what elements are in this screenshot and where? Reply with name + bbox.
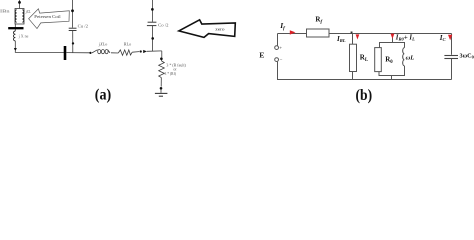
- busbar middle: [64, 46, 67, 60]
- wire source to top rail: [277, 34, 279, 46]
- node dot above ground: [160, 87, 163, 90]
- svg-text:jXL: jXL: [25, 9, 31, 14]
- current arrow IR0+IL: [391, 34, 395, 39]
- resistor RLo: [118, 50, 132, 55]
- wire top rail: [278, 33, 452, 35]
- resistor Rf box: [307, 29, 330, 37]
- transformer T1 box: [15, 9, 24, 25]
- resistor RL box: [350, 44, 357, 71]
- wire below Petersen coil: [14, 41, 16, 49]
- wire feeder 2 capacitor branch: [152, 0, 154, 22]
- wire R0-L bottom connector: [379, 66, 405, 76]
- wire below fault resistor: [160, 78, 162, 87]
- wire capacitor to rail: [72, 31, 74, 53]
- svg-text:jXLo: jXLo: [98, 42, 107, 47]
- wire right column down: [451, 34, 453, 55]
- wire middle rail: [66, 52, 90, 54]
- capacitor 3wC0: [444, 56, 458, 59]
- svg-text:Co /2: Co /2: [158, 23, 168, 28]
- wire top lead of transformer: [19, 0, 21, 9]
- wire after resistor: [132, 51, 139, 54]
- arrowhead down: [14, 48, 17, 51]
- svg-text:Petersen Coil: Petersen Coil: [34, 15, 60, 19]
- current arrow If: [290, 30, 296, 34]
- wire group to bottom rail: [391, 76, 393, 80]
- source E terminal top: [275, 46, 279, 50]
- wire neutral lead: [14, 24, 16, 31]
- callout zero arrow: [179, 20, 236, 38]
- node dot mid branch: [72, 42, 74, 44]
- svg-text:R0: R0: [385, 56, 393, 66]
- wire fault branch top: [161, 51, 163, 58]
- svg-text:RLo: RLo: [124, 41, 132, 46]
- wire capacitor 2 to rail: [152, 26, 154, 51]
- wire RL to bottom rail: [352, 72, 354, 80]
- node junction square: [351, 32, 353, 34]
- resistor 3Rf vertical: [159, 60, 165, 78]
- node junction dot: [89, 52, 91, 54]
- node dot: [151, 8, 154, 11]
- wire to fault corner: [147, 50, 162, 52]
- current arrow IRL: [356, 34, 360, 39]
- svg-text:or: or: [173, 68, 177, 72]
- wire to resistor: [111, 52, 118, 54]
- svg-text:zero: zero: [215, 26, 225, 31]
- capacitor Co/2: [147, 22, 157, 25]
- wire feeder capacitor branch: [72, 0, 74, 28]
- wire RL branch: [352, 34, 354, 45]
- svg-text:IBn: IBn: [0, 8, 11, 13]
- svg-text:IRL: IRL: [336, 35, 346, 43]
- svg-text:IR0+ IL: IR0+ IL: [395, 34, 415, 41]
- callout Petersen Coil: [29, 9, 70, 29]
- svg-text:(a): (a): [95, 87, 111, 104]
- current arrow IC: [448, 35, 452, 41]
- arrowhead right: [143, 50, 147, 53]
- svg-text:Rf: Rf: [315, 16, 322, 26]
- wire to ground: [160, 90, 162, 93]
- resistor R0 box: [375, 48, 382, 72]
- inductor jXLo: [92, 50, 110, 54]
- wire middle rail left: [15, 51, 64, 52]
- svg-text:j X ne: j X ne: [17, 35, 28, 39]
- node dot on capacitor branch: [71, 9, 74, 12]
- inductor Petersen coil: [13, 31, 15, 41]
- transformer T1 right winding: [22, 10, 24, 22]
- svg-text:If: If: [279, 21, 286, 32]
- wire R0-L group stub: [392, 34, 394, 43]
- wire R0-L top connector: [380, 43, 405, 48]
- wire capacitor to bottom rail: [451, 59, 453, 80]
- transformer T1 left winding: [15, 10, 17, 22]
- svg-text:3ωC0: 3ωC0: [460, 52, 474, 59]
- node dot on Co branch: [151, 37, 154, 40]
- svg-text:ωL: ωL: [406, 55, 415, 62]
- node top junction dot: [18, 1, 21, 4]
- capacitor Cu/2: [69, 28, 77, 30]
- inductor wL: [403, 48, 405, 66]
- busbar neutral: [8, 27, 23, 29]
- svg-text:3 * (Rf): 3 * (Rf): [165, 72, 177, 76]
- node junction dot: [140, 50, 142, 52]
- ground: [155, 93, 168, 96]
- svg-text:(b): (b): [356, 87, 373, 104]
- svg-text:IC: IC: [439, 34, 447, 42]
- svg-text:RL: RL: [360, 54, 368, 64]
- source E terminal bottom: [275, 58, 279, 62]
- wire bottom rail: [278, 62, 452, 80]
- svg-text:E: E: [259, 51, 264, 60]
- svg-text:Cu /2: Cu /2: [78, 24, 88, 29]
- svg-text:−: −: [280, 58, 283, 63]
- svg-text:+: +: [279, 47, 282, 52]
- node dot fault: [160, 57, 163, 60]
